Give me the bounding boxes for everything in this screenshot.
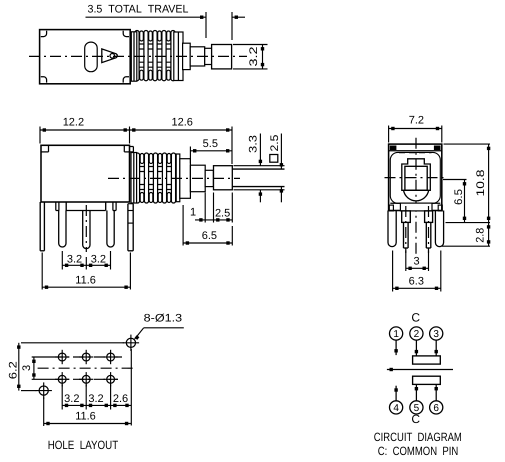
mid view centerline (108, 177, 240, 179)
dim 3.5 ext line left (205, 12, 207, 38)
dim 3.2 holes ext lines (61, 385, 63, 410)
circuit pin 5 (410, 401, 423, 414)
svg-text:C: COMMON PIN: C: COMMON PIN (378, 444, 459, 458)
top view spring flange (174, 32, 183, 81)
dim 3.5 right arrow (232, 16, 245, 18)
dim 11.6 holes ext (43, 398, 45, 427)
dim 11.6 mid ext lines (41, 253, 43, 290)
svg-text:3: 3 (414, 255, 420, 267)
mid view bottom slots (55, 202, 57, 211)
mid view pin 1 (59, 211, 66, 248)
dim 3 front ext lines (405, 251, 407, 272)
svg-text:2.6: 2.6 (113, 393, 128, 405)
svg-text:CIRCUIT DIAGRAM: CIRCUIT DIAGRAM (374, 430, 462, 444)
dim 3.5 ext line right (231, 12, 233, 40)
dim 3.5 leader line (86, 16, 207, 18)
dim 3 holes ext lines (32, 356, 52, 358)
svg-text:3.2: 3.2 (64, 393, 79, 405)
circuit contact block top (413, 356, 441, 364)
svg-text:1: 1 (393, 329, 399, 340)
dim 3.2 ext bottom (233, 68, 268, 70)
mid view shaft (190, 165, 205, 192)
circuit pin 4 (390, 401, 403, 414)
circuit wire pin5 up (415, 384, 417, 401)
hole pin 1 (58, 353, 66, 361)
hole pin 5 (82, 375, 90, 383)
top view shaft (190, 47, 205, 66)
svg-text:2.8: 2.8 (475, 228, 487, 243)
dim 11.6 holes line (44, 423, 131, 425)
dim 10.8 ext top (444, 143, 491, 145)
hole pin 2 (82, 353, 90, 361)
svg-text:1: 1 (190, 207, 196, 219)
svg-text:12.6: 12.6 (171, 117, 192, 129)
front view vertical centerline (415, 138, 417, 254)
svg-text:11.6: 11.6 (75, 411, 96, 423)
svg-text:C: C (411, 310, 420, 324)
dim 2.5 arrows (214, 219, 233, 221)
mid view pin 3 (107, 211, 114, 247)
callout leader (144, 327, 184, 329)
dim sq2.5 line (280, 134, 282, 170)
front view band dashes (399, 152, 432, 154)
mid view square shaft (232, 168, 284, 170)
dim 3.2 ext top (233, 44, 268, 46)
mid view top-right tab (124, 151, 133, 153)
svg-text:5.5: 5.5 (203, 138, 218, 150)
mid view right leg (127, 204, 129, 251)
front view dome (404, 190, 429, 201)
svg-text:6: 6 (433, 403, 439, 414)
dim 12.2 ext lines (39, 127, 41, 144)
top view cap (212, 45, 232, 69)
front view pin left (403, 223, 405, 248)
front view inner rounded face (390, 152, 440, 203)
hole layout row centerline 1 (52, 356, 122, 358)
mid view retainer bars (131, 153, 137, 204)
front view body outline (389, 144, 442, 210)
dim 6.2 ext top (21, 342, 124, 344)
circuit wire pin4 up (395, 386, 397, 401)
dim 1-2.5 ext lines (204, 193, 206, 223)
dim 3.2 holes line (62, 404, 131, 406)
svg-text:12.2: 12.2 (63, 117, 84, 129)
dim 3.3 ext top (234, 165, 285, 167)
top view inner cone (102, 49, 117, 63)
dim 3 front line (406, 267, 429, 269)
circuit wire pin1 down (395, 340, 397, 355)
front view leg step left (389, 205, 393, 211)
dim 6.5 front ext (443, 179, 467, 181)
circuit wire pin2 down (415, 340, 417, 356)
front view pin stub right (425, 211, 433, 223)
circuit pin 2 (410, 327, 423, 340)
svg-text:HOLE LAYOUT: HOLE LAYOUT (48, 438, 119, 452)
front view pin left centerline (405, 206, 407, 253)
top view centerline (29, 55, 247, 57)
dim 2.8 line (488, 223, 490, 247)
dim 3.2 line (262, 45, 264, 69)
dim sq2.5 square symbol (270, 155, 278, 163)
mounting hole top right (126, 338, 135, 347)
svg-text:6.3: 6.3 (409, 276, 424, 288)
dim 12.6 line (130, 129, 233, 131)
svg-text:8-Ø1.3: 8-Ø1.3 (144, 312, 183, 324)
hole pin 6 (107, 375, 115, 383)
svg-text:2.5: 2.5 (215, 208, 230, 220)
dim 6.3 ext lines (392, 251, 394, 292)
dim 6.5 line (183, 242, 232, 244)
circuit wire pin3 down (435, 340, 437, 356)
hole pin 4 (58, 375, 66, 383)
mid view spring flange (176, 154, 180, 202)
dim 10.8 line (488, 144, 490, 223)
mid view connector (205, 170, 213, 186)
dim 6.5 front line (464, 180, 466, 223)
svg-text:3.2: 3.2 (88, 393, 103, 405)
front view pin right centerline (428, 206, 430, 253)
svg-text:2.5: 2.5 (269, 135, 281, 152)
svg-text:6.5: 6.5 (453, 189, 465, 205)
front view stepped cap (402, 159, 431, 191)
dim 3.2 pins line (62, 264, 110, 266)
svg-text:11.6: 11.6 (75, 275, 96, 287)
front view pin right (425, 223, 427, 248)
dim 12.2 line (40, 129, 130, 131)
front view leg step right (438, 205, 442, 211)
mid view top-left notch (41, 151, 49, 153)
circuit pin 3 (430, 327, 443, 340)
dim 11.6 mid line (42, 286, 130, 288)
top view body corner notches (41, 31, 47, 37)
svg-text:3: 3 (433, 329, 439, 340)
front view bottom inner line (390, 202, 440, 204)
dim 6.5 ext (182, 205, 184, 246)
dim 6.2 line (18, 343, 20, 391)
svg-text:3.5 TOTAL TRAVEL: 3.5 TOTAL TRAVEL (88, 4, 189, 16)
dim 7.2 line (389, 128, 442, 130)
hole layout middle centerline (38, 367, 134, 369)
circuit pin 1 (390, 327, 403, 340)
dim 3.2 pins ext lines (61, 251, 63, 270)
svg-text:3.2: 3.2 (248, 47, 260, 67)
top view connector (205, 48, 212, 64)
hole pin 3 (107, 353, 115, 361)
svg-text:3: 3 (21, 365, 33, 371)
svg-text:3.3: 3.3 (248, 135, 260, 153)
dim 1 arrows (195, 219, 214, 221)
dim 3 holes line (33, 357, 35, 379)
svg-text:6.5: 6.5 (202, 230, 217, 242)
mid view spring (133, 166, 178, 168)
dim 7.2 ext lines (388, 126, 390, 143)
top view spring (133, 43, 178, 45)
mid view body outline (41, 145, 130, 202)
dim 5.5 ext (189, 147, 191, 164)
svg-text:6.2: 6.2 (8, 361, 20, 379)
front view top band (389, 150, 442, 152)
front view left leg (388, 211, 396, 247)
mid view bushing (180, 159, 191, 199)
hole layout row centerline 2 (52, 378, 118, 380)
mid view pin 2 centerline (85, 205, 87, 252)
svg-text:3.2: 3.2 (67, 253, 82, 265)
front view bottom center block (400, 203, 432, 211)
svg-text:C: C (411, 412, 420, 426)
svg-text:4: 4 (393, 403, 399, 414)
circuit common bus (387, 369, 453, 371)
dim 3.3 line (259, 134, 261, 166)
circuit pin 6 (430, 401, 443, 414)
mounting hole bottom left (39, 386, 48, 395)
circuit contact block bottom (413, 376, 441, 384)
top view inner capsule (85, 42, 98, 72)
top view body outline (40, 30, 131, 84)
dim 6.2 ext bottom (21, 390, 37, 392)
front bottom ext line (442, 245, 490, 247)
circuit wire pin6 up (435, 384, 437, 401)
svg-text:2: 2 (414, 329, 420, 340)
svg-text:7.2: 7.2 (409, 115, 424, 127)
dim 5.5 line (190, 150, 232, 152)
front view pin stub left (402, 211, 411, 223)
dim 3.3 ext bottom (234, 189, 285, 191)
mid view cap (214, 166, 233, 190)
mid view pin 2 (83, 211, 90, 249)
front view cap inner square (405, 166, 427, 190)
front view horizontal centerline (385, 177, 447, 179)
mid view left leg (39, 202, 41, 251)
svg-text:10.8: 10.8 (475, 170, 487, 197)
front view right leg (435, 211, 443, 247)
dim 6.3 line (393, 287, 441, 289)
top view retainer bars (131, 32, 137, 81)
front seating ext line (446, 222, 491, 224)
front view band corner marks (390, 146, 397, 151)
top view bushing (183, 43, 191, 69)
mid view bottom block (65, 202, 67, 211)
svg-text:3.2: 3.2 (91, 253, 106, 265)
